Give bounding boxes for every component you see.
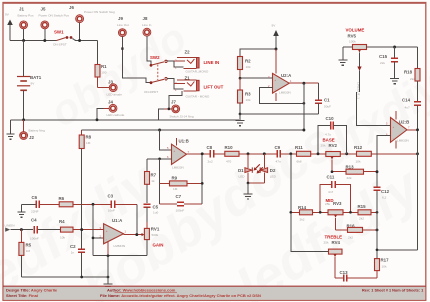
svg-text:SW2: SW2	[150, 55, 160, 60]
svg-text:6,2: 6,2	[382, 196, 387, 200]
svg-text:1: 1	[175, 88, 177, 92]
junction node C15 tap	[393, 46, 396, 49]
wire vertical feedback (x=93)	[92, 204, 94, 255]
svg-text:LINE IN: LINE IN	[204, 60, 220, 65]
svg-text:Line Out: Line Out	[117, 23, 129, 27]
svg-text:2k2: 2k2	[359, 217, 364, 221]
wire Vref drop	[303, 83, 305, 130]
ground (RV5)	[338, 47, 347, 65]
potentiometer RV4 TREBLE	[324, 235, 343, 279]
svg-text:LED: LED	[239, 175, 246, 179]
svg-text:BAT1: BAT1	[30, 75, 42, 80]
svg-text:1M: 1M	[173, 187, 178, 191]
op-amp U2:B	[386, 111, 410, 149]
junction node R5 top	[20, 228, 23, 231]
svg-text:Power ON Switch Pos: Power ON Switch Pos	[39, 14, 70, 18]
svg-text:Battery Neg: Battery Neg	[29, 129, 46, 133]
ground (C6 left)	[18, 204, 26, 217]
svg-text:1M: 1M	[86, 141, 91, 145]
connector J1	[18, 7, 34, 41]
capacitor C9	[275, 145, 297, 164]
svg-text:R18: R18	[404, 70, 413, 75]
ground (diodes)	[244, 183, 253, 199]
svg-text:1: 1	[175, 66, 177, 70]
jack Z2 LINE IN	[175, 50, 219, 74]
svg-text:GAIN: GAIN	[153, 243, 164, 248]
svg-text:C6: C6	[32, 195, 38, 200]
node square on J9 wire	[121, 47, 123, 49]
svg-text:C13: C13	[340, 270, 349, 275]
svg-text:C3: C3	[108, 194, 114, 199]
ground (R3)	[236, 114, 245, 126]
op-amp U1:A	[100, 218, 127, 256]
svg-text:Sheet Title: Final: Sheet Title: Final	[6, 293, 38, 298]
svg-text:Power ON Switch Neg: Power ON Switch Neg	[84, 10, 115, 14]
resistor R4	[59, 219, 104, 240]
junction node feedback tee	[303, 102, 306, 105]
svg-text:R17: R17	[381, 258, 390, 263]
wire Vref rail	[82, 129, 304, 131]
svg-text:TREBLE: TREBLE	[325, 235, 343, 240]
svg-text:U1:B: U1:B	[179, 139, 189, 144]
resistor R6	[59, 196, 111, 207]
svg-text:D1: D1	[238, 168, 244, 173]
capacitor C8	[207, 145, 225, 164]
resistor R1	[95, 64, 107, 88]
switch SW1	[53, 30, 72, 47]
potentiometer RV3 MID	[325, 198, 358, 230]
connector J5	[39, 7, 70, 41]
wire ground bus	[11, 119, 240, 121]
wire feedback loop U2:A	[259, 88, 304, 104]
wire C1 ground link	[240, 113, 318, 115]
wire to U1:A inverting input	[93, 237, 104, 239]
resistor R13	[332, 165, 377, 180]
svg-text:R7: R7	[151, 173, 157, 178]
wire divider node to U2:A +	[240, 77, 273, 79]
wire RV1 bottom rail	[93, 255, 147, 257]
svg-text:RV4: RV4	[332, 240, 341, 245]
net arrow LINEOUT	[357, 67, 362, 100]
junction node sleeve/J7	[168, 108, 171, 111]
svg-text:LED anode: LED anode	[107, 93, 123, 97]
resistor R2	[238, 57, 252, 79]
jack Z1 LIFT OUT	[175, 76, 224, 99]
svg-text:RV2: RV2	[329, 143, 338, 148]
wire C3 line down to U1:A output	[136, 204, 138, 234]
junction node x93/-in	[92, 237, 95, 240]
svg-text:R2: R2	[245, 59, 251, 64]
svg-text:9V: 9V	[5, 13, 10, 17]
svg-text:-: -	[106, 238, 107, 241]
svg-text:Z2: Z2	[185, 50, 191, 55]
svg-text:R12: R12	[354, 145, 363, 150]
junction node C11 left	[319, 211, 322, 214]
junction node diode gnd	[247, 182, 250, 185]
svg-text:Author: Www.hobbiessessions.co: Author: Www.hobbiessessions.com	[107, 287, 176, 292]
svg-text:LIFT OUT: LIFT OUT	[204, 84, 224, 89]
capacitor C2	[70, 230, 85, 277]
svg-text:LINEIN: LINEIN	[5, 224, 15, 228]
junction node C2 bottom	[80, 276, 83, 279]
capacitor C12	[374, 142, 390, 259]
resistor R16	[336, 224, 378, 240]
svg-text:BASE: BASE	[323, 138, 335, 143]
capacitor C6	[22, 195, 60, 214]
junction node Vref out	[302, 82, 305, 85]
capacitor C10	[318, 116, 347, 154]
svg-text:22NF: 22NF	[31, 210, 39, 214]
svg-text:500k: 500k	[152, 233, 159, 237]
svg-text:J9: J9	[118, 16, 123, 21]
svg-text:22u: 22u	[380, 61, 385, 65]
svg-text:GUITAR_MONO: GUITAR_MONO	[186, 70, 209, 74]
svg-text:C8: C8	[207, 145, 213, 150]
capacitor C5	[143, 204, 158, 222]
junction node J6/bus	[78, 39, 81, 42]
svg-text:Rev: 1 Sheet # 1 Num of: Rev: 1 Sheet # 1 Num of Sheets: 1	[362, 288, 423, 292]
svg-text:R3: R3	[245, 92, 251, 97]
svg-text:C5: C5	[153, 205, 159, 210]
switch SW2	[144, 55, 167, 94]
ground (left of J2)	[7, 120, 15, 139]
junction node R15/vert	[376, 211, 379, 214]
svg-text:4.7u: 4.7u	[325, 133, 331, 137]
junction node R8 bottom	[80, 228, 83, 231]
connector J6	[69, 5, 115, 41]
svg-text:R1: R1	[101, 64, 107, 69]
svg-text:10k: 10k	[382, 265, 387, 269]
junction node Vref/U1B+	[158, 129, 161, 132]
svg-text:25k: 25k	[321, 144, 326, 148]
junction node R16/vert	[376, 228, 379, 231]
junction node rail/gnd	[107, 276, 110, 279]
svg-text:RV3: RV3	[333, 201, 342, 206]
svg-text:D2: D2	[270, 168, 276, 173]
svg-text:ON-SPST: ON-SPST	[53, 43, 67, 47]
wire U2:B output	[407, 129, 418, 131]
svg-text:7: 7	[188, 150, 190, 154]
svg-text:C14: C14	[402, 98, 411, 103]
junction node R14 tap	[289, 211, 292, 214]
connector J3	[107, 80, 123, 97]
svg-text:RV1: RV1	[151, 227, 160, 232]
svg-text:Battery Pos: Battery Pos	[18, 14, 34, 18]
capacitor C11	[320, 175, 350, 213]
power symbol 9V (right)	[272, 24, 279, 50]
svg-text:U1:A: U1:A	[112, 218, 123, 223]
junction node pin4 rail	[107, 254, 110, 257]
wire R1 to J3	[98, 87, 110, 89]
svg-text:C10: C10	[326, 116, 335, 121]
svg-text:Design Title: Angry Charlie: Design Title: Angry Charlie	[6, 287, 58, 292]
svg-text:R15: R15	[358, 204, 367, 209]
svg-text:4n7: 4n7	[328, 190, 333, 194]
junction node tone tap	[289, 152, 292, 155]
svg-text:J1: J1	[19, 7, 24, 12]
svg-text:100k: 100k	[349, 40, 356, 44]
svg-text:GUITAR - MONO: GUITAR - MONO	[186, 94, 210, 98]
net arrow LINEIN	[5, 224, 15, 232]
svg-text:C9: C9	[275, 145, 281, 150]
junction node R9 right	[201, 182, 204, 185]
LED arrows	[254, 164, 263, 173]
svg-text:C11: C11	[327, 175, 335, 180]
svg-text:J5: J5	[41, 7, 46, 12]
diode D2 LED	[260, 154, 276, 183]
svg-text:LM833N: LM833N	[114, 244, 126, 248]
wire U2:A pin8	[275, 49, 277, 73]
junction node 9V tee	[275, 48, 278, 51]
svg-text:10k: 10k	[246, 98, 251, 102]
svg-text:J8: J8	[143, 16, 148, 21]
wire feedback from out rail	[377, 249, 418, 251]
svg-text:C12: C12	[381, 189, 390, 194]
battery BAT1	[17, 41, 42, 120]
wire U1:A output to RV1 wiper	[124, 234, 142, 236]
ground (U1:A)	[104, 256, 113, 290]
junction node J4/bus	[96, 118, 99, 121]
svg-text:1u0: 1u0	[153, 211, 158, 215]
svg-text:22k: 22k	[347, 176, 352, 180]
title block	[3, 286, 426, 300]
resistor R14	[291, 205, 328, 222]
wire U1:B output line	[187, 153, 210, 155]
svg-text:R4: R4	[59, 219, 65, 224]
wire LINEOUT to U2:B +	[357, 92, 391, 126]
junction node battery/bus	[22, 118, 25, 121]
wire J8 to SW2 pole A	[147, 36, 151, 64]
potentiometer RV2 BASE	[321, 138, 357, 172]
junction node divider	[239, 77, 242, 80]
svg-text:10nF: 10nF	[108, 209, 115, 213]
potentiometer RV1 GAIN	[142, 222, 164, 256]
op-amp U2:A	[268, 73, 292, 101]
svg-text:LM833N: LM833N	[279, 91, 291, 95]
svg-text:ON-DPDT: ON-DPDT	[144, 90, 158, 94]
wire J9 to SW2 pole B	[122, 37, 150, 83]
svg-text:10k: 10k	[356, 160, 361, 164]
svg-text:2k2: 2k2	[300, 218, 305, 222]
svg-text:J7: J7	[171, 100, 176, 105]
svg-text:1k: 1k	[151, 179, 155, 183]
junction node J5/bus	[43, 39, 46, 42]
resistor R11	[295, 145, 326, 164]
svg-text:50uF: 50uF	[324, 105, 331, 109]
svg-text:VOLUME: VOLUME	[346, 28, 365, 33]
wire U1:B inverting line	[147, 158, 172, 160]
svg-text:100nF: 100nF	[176, 209, 185, 213]
wire SW2 throw B to jack Z1	[167, 79, 183, 90]
svg-text:C7: C7	[176, 194, 182, 199]
svg-text:10k: 10k	[246, 65, 251, 69]
svg-text:2u2: 2u2	[208, 160, 213, 164]
svg-text:Line In: Line In	[142, 23, 152, 27]
junction node fb/vert	[376, 248, 379, 251]
svg-text:C15: C15	[379, 54, 388, 59]
svg-text:SW1: SW1	[54, 30, 64, 35]
connector J8	[142, 16, 152, 36]
svg-text:1M: 1M	[26, 249, 31, 253]
svg-text:R6: R6	[59, 196, 65, 201]
junction node C10 tap	[345, 152, 348, 155]
svg-text:R11: R11	[295, 145, 303, 150]
svg-text:25k: 25k	[325, 202, 330, 206]
resistor R5	[19, 230, 32, 277]
connector J4	[107, 100, 125, 118]
svg-text:2k2: 2k2	[348, 236, 353, 240]
diode D1 LED	[238, 154, 252, 183]
junction node R13/C12	[376, 170, 379, 173]
svg-text:U2:A: U2:A	[281, 73, 292, 78]
wire Z2 tip stub	[174, 60, 185, 62]
svg-text:RV5: RV5	[348, 34, 357, 39]
svg-text:47n: 47n	[276, 160, 281, 164]
wire SW1 to J6/R1	[73, 39, 98, 41]
svg-text:6k8: 6k8	[297, 160, 302, 164]
junction node RV2 wiper/R13	[331, 170, 334, 173]
svg-text:9V: 9V	[31, 82, 36, 86]
resistor R9	[160, 176, 203, 192]
capacitor C14	[402, 98, 421, 250]
svg-text:-: -	[174, 159, 175, 162]
resistor R7	[145, 159, 157, 203]
svg-text:R5: R5	[26, 243, 32, 248]
svg-text:25k: 25k	[324, 241, 329, 245]
resistor R18	[404, 47, 420, 102]
svg-text:U2:B: U2:B	[399, 120, 409, 125]
junction node D1 top	[247, 152, 250, 155]
ground (C15)	[390, 79, 399, 84]
capacitor C7	[160, 194, 203, 213]
svg-text:10k: 10k	[60, 236, 65, 240]
wire J4 to ground bus	[104, 107, 110, 109]
svg-text:-: -	[275, 88, 276, 91]
resistor R8	[79, 130, 91, 230]
capacitor C1	[315, 83, 331, 114]
resistor R3	[238, 78, 252, 114]
resistor R15	[358, 204, 378, 221]
svg-text:C2: C2	[70, 244, 76, 249]
svg-text:C4: C4	[31, 218, 37, 223]
svg-text:LM833N: LM833N	[172, 166, 184, 170]
junction node output/C3line	[135, 233, 138, 236]
svg-text:R8: R8	[86, 135, 92, 140]
wire tone stack input drop	[291, 154, 329, 252]
wire +9V bus	[10, 40, 57, 42]
wire diode bottoms join	[248, 182, 264, 184]
resistor R10	[225, 145, 277, 164]
wire Z1 sleeve to J7 net	[169, 91, 182, 109]
svg-text:Switch J3-J4 Neg: Switch J3-J4 Neg	[170, 115, 194, 119]
svg-text:J4: J4	[108, 100, 113, 105]
connector J2	[20, 120, 45, 140]
wire +9V to R2	[240, 49, 276, 57]
svg-text:J2: J2	[29, 135, 34, 140]
svg-text:R14: R14	[298, 205, 307, 210]
svg-text:R10: R10	[225, 145, 234, 150]
junction node J1/bus	[22, 39, 25, 42]
wire SW2 throw A to jack Z2	[167, 61, 183, 67]
capacitor C4	[30, 218, 61, 241]
junction node R3 bottom	[239, 113, 242, 116]
svg-text:R9: R9	[172, 176, 178, 181]
junction node output rail	[416, 128, 419, 131]
resistor R12	[354, 145, 418, 164]
junction node D2 top	[263, 152, 266, 155]
junction node R6/C3	[92, 203, 95, 206]
wire input line	[11, 229, 34, 231]
capacitor C15	[379, 47, 398, 79]
wire U2:A output	[289, 82, 318, 84]
wire R9/C7 left rail	[159, 159, 161, 204]
junction node C10 left	[317, 152, 320, 155]
svg-text:-: -	[393, 137, 394, 140]
svg-text:C1: C1	[324, 98, 330, 103]
wire U2:B inverting	[377, 136, 391, 142]
power symbol 9V (left)	[5, 13, 13, 41]
wire down to R1	[97, 41, 99, 65]
wire to U1:B non-inverting input	[160, 130, 172, 150]
capacitor C3	[108, 194, 137, 213]
wire J7 to ground bus	[164, 108, 172, 110]
svg-text:LED: LED	[270, 175, 277, 179]
resistor R17	[375, 258, 390, 279]
svg-text:470: 470	[226, 160, 231, 164]
wire output drop rail (x=202.2)	[201, 154, 203, 204]
svg-text:1n: 1n	[71, 251, 75, 255]
connector J7	[170, 100, 194, 119]
junction node output/drop	[201, 152, 204, 155]
potentiometer RV5 VOLUME	[343, 28, 418, 68]
wire Z1 tip stub	[174, 82, 185, 84]
svg-text:LED cathode: LED cathode	[107, 113, 125, 117]
junction node R12/out rail	[416, 152, 419, 155]
svg-text:J6: J6	[69, 5, 74, 10]
svg-text:100nF: 100nF	[30, 237, 39, 241]
op-amp U1:B	[167, 138, 190, 170]
junction node Vref rail tee	[302, 129, 305, 132]
capacitor C13	[335, 270, 377, 289]
wire bottom ground rail	[21, 276, 108, 278]
svg-text:100: 100	[101, 71, 106, 75]
svg-text:4u7: 4u7	[405, 106, 410, 110]
svg-text:1: 1	[290, 79, 292, 83]
connector J9	[117, 16, 129, 37]
svg-text:LM833N: LM833N	[397, 139, 409, 143]
junction node -in/R9rail	[158, 157, 161, 160]
junction node C11 right	[349, 211, 352, 214]
svg-text:9V: 9V	[272, 24, 277, 28]
svg-text:File Name: Acoustic-triode/gui: File Name: Acoustic-triode/guitar effect…	[100, 293, 261, 298]
